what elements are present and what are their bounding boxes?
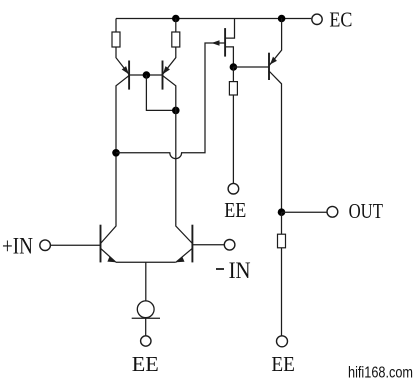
node rail-R2 junction xyxy=(172,15,180,23)
node output junction xyxy=(278,208,286,216)
wire base tie to Q2 collector xyxy=(146,75,175,110)
label -IN minus xyxy=(216,268,224,270)
svg-text:+IN: +IN xyxy=(2,233,33,258)
terminal EE tail xyxy=(141,336,151,346)
wire rail to Q4 emitter xyxy=(269,19,281,66)
wire emitter bus xyxy=(116,261,176,263)
wire Q3 collector to rail xyxy=(225,19,234,39)
terminal -IN xyxy=(224,240,235,251)
node base tie junction xyxy=(143,71,151,79)
wire R3 to EE terminal xyxy=(232,95,234,183)
transistor Q3 bar xyxy=(224,28,226,56)
transistor Q4 bar xyxy=(268,53,270,80)
wire Q2 collector down right column xyxy=(163,76,193,244)
transistor Q5 bar xyxy=(100,225,102,263)
node rail-Q4 junction xyxy=(278,15,286,23)
wire output node to R4 xyxy=(281,212,283,234)
transistor Q6 emitter arrow xyxy=(176,257,185,263)
node Q3-R3-Q4 junction xyxy=(230,63,238,71)
transistor Q3 emitter arrow xyxy=(212,40,220,46)
wire Q6 emitter xyxy=(176,248,193,262)
svg-text:hifi168.com: hifi168.com xyxy=(348,365,413,382)
transistor Q2 emitter arrow xyxy=(163,66,170,74)
wire -IN to Q6 base xyxy=(192,244,224,246)
wire rail to R1 xyxy=(115,19,117,33)
svg-text:EE: EE xyxy=(132,352,159,376)
resistor R4 xyxy=(278,234,286,248)
wire Q4 collector to output column xyxy=(269,71,282,212)
current source CS1 circle xyxy=(137,301,154,318)
transistor Q2 bar xyxy=(162,61,164,90)
transistor Q1 emitter arrow xyxy=(122,66,129,74)
resistor R1 xyxy=(112,32,120,47)
resistor R3 xyxy=(229,82,237,95)
svg-text:EE: EE xyxy=(271,352,295,376)
terminal EE middle xyxy=(228,183,239,194)
transistor Q4 emitter arrow xyxy=(270,57,277,65)
svg-text:OUT: OUT xyxy=(349,199,384,223)
wire R2 to Q2 emitter xyxy=(163,47,176,75)
terminal EE right xyxy=(277,336,288,347)
current source CS1 bar xyxy=(132,317,160,319)
wire to OUT terminal xyxy=(282,211,328,213)
node Q2 collector junction xyxy=(172,107,180,115)
svg-text:IN: IN xyxy=(229,258,251,283)
wire rail to R2 xyxy=(175,19,177,33)
wire Q5 emitter xyxy=(101,248,117,262)
wire +IN to Q5 base xyxy=(50,244,100,246)
terminal EC xyxy=(312,14,322,24)
wire crossover hop to Q3 emitter xyxy=(116,43,225,159)
wire Q1-Q2 base tie xyxy=(129,74,162,76)
terminal OUT xyxy=(327,206,338,217)
transistor Q5 emitter arrow xyxy=(107,256,115,262)
wire node to R3 xyxy=(232,67,234,82)
terminal +IN xyxy=(40,240,51,251)
wire Q1 collector down left column xyxy=(101,76,130,244)
wire R1 to Q1 emitter xyxy=(116,47,129,75)
node left column junction xyxy=(112,149,120,157)
resistor R2 xyxy=(172,32,180,47)
wire R4 to EE terminal xyxy=(281,248,283,336)
svg-text:EE: EE xyxy=(224,198,246,222)
wire CS1 to EE terminal xyxy=(145,318,147,336)
wire node to Q4 base xyxy=(233,66,269,68)
wire tail down xyxy=(145,262,147,301)
svg-text:EC: EC xyxy=(329,7,352,31)
wire Q3 base to node xyxy=(225,47,233,67)
wire top supply rail xyxy=(116,18,311,20)
transistor Q1 bar xyxy=(128,61,130,90)
transistor Q6 bar xyxy=(191,225,193,263)
